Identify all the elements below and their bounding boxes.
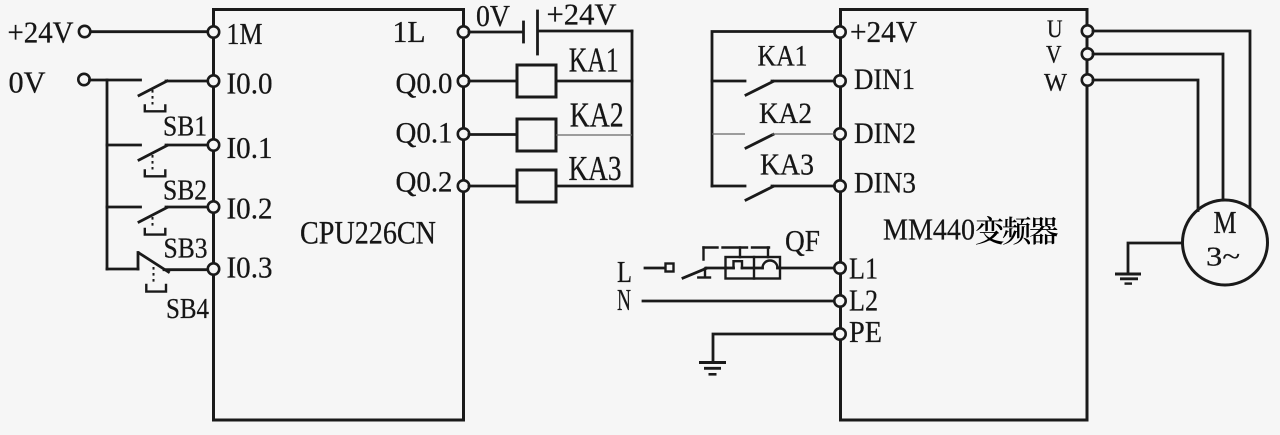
svg-text:QF: QF [785,223,820,258]
breaker QF [683,223,820,279]
battery +24V plate [538,0,618,54]
terminal U [1047,16,1093,43]
svg-text:I0.1: I0.1 [227,130,273,165]
svg-text:Q0.0: Q0.0 [396,67,453,100]
breaker QF terminal square [666,264,674,272]
wire [107,206,141,209]
svg-text:0V: 0V [9,65,47,100]
inverter label MM440 变频器 [883,212,1058,247]
svg-text:Q0.1: Q0.1 [396,117,453,150]
terminal I0.2 [208,191,273,226]
terminal DIN2 [834,117,916,150]
ground (PE) [699,363,726,375]
pushbutton SB4 (NC) [138,253,209,326]
svg-text:+24V: +24V [8,15,75,50]
wire [556,185,632,188]
terminal +24V (inverter) [834,15,917,49]
terminal Q0.1 [396,117,470,150]
wire 0V bus [106,80,109,269]
svg-text:3~: 3~ [1206,242,1240,272]
svg-text:0V: 0V [476,0,511,33]
terminal I0.3 [208,250,273,285]
svg-text:SB2: SB2 [163,175,207,207]
svg-text:SB3: SB3 [164,233,208,265]
wire [91,30,208,33]
svg-text:M: M [1214,204,1237,240]
svg-text:+24V: +24V [850,15,917,49]
wire [556,134,632,136]
wire [107,144,141,147]
pushbutton SB3 [139,208,208,265]
terminal 0V [78,74,89,85]
terminal DIN1 [834,63,915,96]
battery 0V plate [476,0,524,42]
svg-text:W: W [1044,70,1067,97]
svg-text:DIN1: DIN1 [854,63,915,96]
svg-text:KA1: KA1 [569,42,619,80]
wire [772,133,835,135]
terminal V [1046,42,1093,69]
svg-text:I0.0: I0.0 [227,66,273,101]
svg-text:DIN3: DIN3 [854,167,916,200]
wire [772,80,835,83]
relay coil KA1 [517,42,619,97]
wire [772,185,835,188]
wire [645,267,664,270]
wire [713,334,835,362]
terminal I0.0 [208,66,273,101]
wire [166,80,208,83]
svg-text:CPU226CN: CPU226CN [300,216,436,252]
relay contact KA2 [746,97,812,148]
svg-text:Q0.2: Q0.2 [396,166,453,199]
terminal 1L [393,14,470,49]
terminal Q0.0 [396,67,470,100]
pushbutton SB2 [139,146,207,207]
wire [1128,243,1183,273]
pushbutton SB1 [139,81,207,143]
terminal 1M [208,16,263,51]
wire +24V bus [631,31,634,186]
motor M 3~ [1183,200,1268,285]
PLC CPU226CN box [214,10,464,421]
terminal I0.1 [208,130,273,165]
svg-text:I0.3: I0.3 [227,250,273,285]
wire [164,268,208,271]
wire V [1093,54,1223,200]
svg-text:DIN2: DIN2 [854,117,916,150]
svg-text:KA1: KA1 [758,39,808,72]
svg-text:I0.2: I0.2 [227,191,273,226]
terminal Q0.2 [396,166,470,199]
wire [556,80,632,83]
terminal +24V [79,26,90,37]
wire [712,80,745,83]
svg-text:1M: 1M [227,16,263,51]
svg-text:V: V [1046,42,1062,69]
terminal L2 [834,283,878,318]
inverter MM440 box [841,10,1088,421]
wire [90,79,141,82]
svg-text:L1: L1 [849,251,878,286]
wire [107,268,138,271]
terminal W [1044,70,1093,97]
svg-text:1L: 1L [393,14,426,49]
relay contact KA3 [746,147,814,201]
svg-text:KA2: KA2 [759,97,812,130]
svg-text:N: N [617,282,631,317]
svg-text:KA2: KA2 [570,97,624,135]
wire [469,31,522,34]
relay coil KA3 [517,150,622,202]
wire [778,267,835,270]
wire [712,133,745,135]
svg-text:L2: L2 [849,283,878,318]
svg-text:KA3: KA3 [760,147,814,182]
wire [712,185,745,188]
wire contact bus [712,32,835,187]
terminal L1 [834,251,878,286]
relay contact KA1 [746,39,808,95]
terminal PE [834,314,882,349]
terminal DIN3 [834,167,916,200]
svg-text:MM440: MM440 [883,212,975,247]
svg-text:SB4: SB4 [166,293,209,325]
wire [166,144,208,147]
wire [469,133,517,136]
svg-text:+24V: +24V [547,0,618,32]
svg-text:PE: PE [849,314,882,349]
wire [643,300,835,303]
wire U [1093,31,1250,207]
wire [469,80,517,83]
ground (motor frame) [1115,274,1141,284]
svg-text:KA3: KA3 [569,150,622,188]
wire [166,206,208,209]
relay coil KA2 [517,97,624,151]
svg-text:SB1: SB1 [163,111,207,143]
wire [469,185,517,188]
wire W [1093,80,1198,211]
svg-text:U: U [1047,16,1063,43]
wire [539,30,632,33]
